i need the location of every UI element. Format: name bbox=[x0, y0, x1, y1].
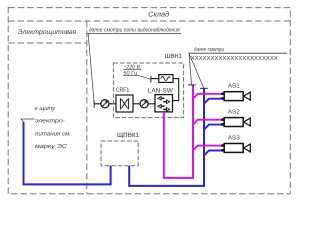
plug-socket connector X1 (circle with arrow) bbox=[101, 100, 109, 108]
wire: tick to PSU bbox=[151, 78, 159, 80]
continuation tick of 220V feed wire bbox=[93, 101, 95, 108]
wire: X2 to LAN-SW bbox=[148, 103, 155, 105]
svg-text:марку ЭС: марку ЭС bbox=[35, 143, 68, 150]
svg-text:далее смотри сети видеонаблюде: далее смотри сети видеонаблюдения bbox=[89, 26, 180, 33]
svg-text:AS2: AS2 bbox=[228, 109, 241, 116]
wire: LAN-SW video trunk (magenta) bbox=[164, 85, 193, 178]
continuation tick of PSU wire bbox=[150, 76, 152, 83]
wire: CRF1 to plug connector X2 bbox=[133, 103, 140, 105]
svg-text:Склад: Склад bbox=[148, 11, 169, 19]
svg-text:AS3: AS3 bbox=[228, 134, 241, 141]
wire: video tap to AS1 bbox=[193, 94, 222, 99]
svg-text:LAN-SW: LAN-SW bbox=[148, 87, 174, 94]
wall: Электрощитовая right wall bbox=[86, 21, 88, 194]
camera AS1 bbox=[221, 83, 250, 101]
leader from note to incoming power wire bbox=[21, 119, 35, 123]
svg-text:к щиту: к щиту bbox=[35, 106, 56, 112]
svg-text:CRF1: CRF1 bbox=[116, 87, 130, 94]
building outline (Склад) dashed border bbox=[8, 8, 290, 194]
wire: video tap to AS2 bbox=[193, 120, 222, 125]
svg-text:электро-: электро- bbox=[35, 119, 65, 125]
wire: power tap to AS3 bbox=[204, 151, 222, 156]
note underline bbox=[87, 32, 181, 34]
cabinet ШВН1 dashed enclosure bbox=[113, 63, 183, 118]
svg-text:AS1: AS1 bbox=[228, 83, 241, 90]
continuation tick on blue trunk bbox=[200, 87, 208, 89]
wire: X1 to CRF1 bbox=[109, 103, 116, 105]
svg-text:ШВН1: ШВН1 bbox=[165, 53, 182, 60]
wire: ЩПВК1 camera power trunk (blue) bbox=[129, 89, 204, 186]
surge filter CRF1 bbox=[116, 95, 133, 112]
power supply unit (box with sine) bbox=[159, 75, 173, 83]
note underline / continuation line bbox=[189, 52, 288, 54]
leader from note to 220V feed wire bbox=[88, 34, 94, 104]
wire: PSU output to LAN-SW bbox=[173, 79, 179, 101]
wire: power tap to AS2 bbox=[204, 125, 222, 130]
plug-socket connector X2 (circle with arrow) bbox=[140, 100, 148, 108]
wall: Электрощитовая room top edge bbox=[8, 42, 87, 44]
wall: top strip divider bbox=[8, 20, 290, 22]
cabinet ЩПВК1 dashed enclosure bbox=[101, 141, 138, 166]
leader from 220V label to PSU wire bbox=[138, 75, 151, 79]
wire: video tap to AS3 bbox=[193, 146, 222, 151]
ethernet switch LAN-SW bbox=[155, 95, 173, 112]
wire: feed to plug connector X1 bbox=[94, 103, 101, 105]
leader to magenta trunk continuation bbox=[189, 53, 192, 84]
svg-text:далее смотри: далее смотри bbox=[194, 47, 224, 53]
camera AS3 bbox=[221, 134, 250, 152]
wire: power tap to AS1 bbox=[204, 99, 222, 104]
svg-text:ЩПВК1: ЩПВК1 bbox=[117, 132, 139, 139]
svg-text:питания см.: питания см. bbox=[35, 131, 71, 137]
svg-text:Электрощитовая: Электрощитовая bbox=[18, 29, 77, 36]
wire: incoming 220V power (blue) to ЩПВК1 bbox=[24, 122, 111, 184]
svg-text:XXXXXXXXXXXXXXXXXXXXXX: XXXXXXXXXXXXXXXXXXXXXX bbox=[191, 55, 278, 62]
camera AS2 bbox=[221, 109, 250, 127]
continuation tick on magenta trunk bbox=[188, 84, 196, 86]
leader to blue trunk continuation bbox=[189, 53, 204, 88]
